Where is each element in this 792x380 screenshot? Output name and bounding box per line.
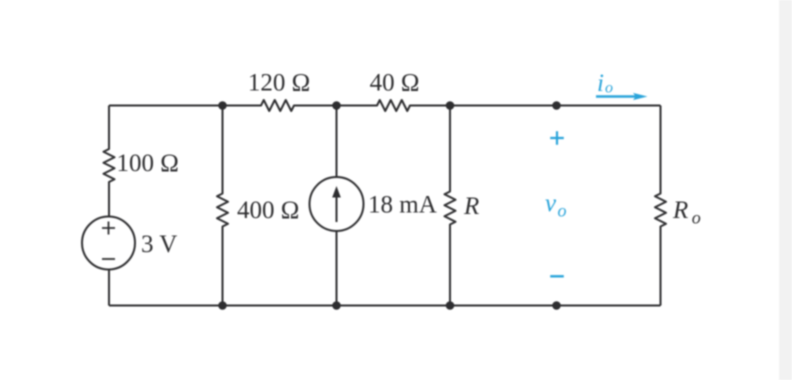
svg-text:o: o — [605, 80, 613, 97]
svg-text:40 Ω: 40 Ω — [370, 70, 420, 97]
svg-text:120 Ω: 120 Ω — [248, 70, 310, 97]
svg-text:o: o — [558, 201, 567, 221]
svg-text:o: o — [692, 208, 701, 228]
svg-text:18 mA: 18 mA — [368, 192, 437, 219]
svg-text:R: R — [463, 193, 479, 220]
svg-text:v: v — [545, 190, 557, 217]
svg-text:100 Ω: 100 Ω — [117, 150, 179, 177]
svg-text:i: i — [597, 70, 604, 97]
svg-text:R: R — [672, 197, 688, 224]
svg-text:3 V: 3 V — [141, 231, 177, 258]
svg-text:400 Ω: 400 Ω — [237, 197, 299, 224]
